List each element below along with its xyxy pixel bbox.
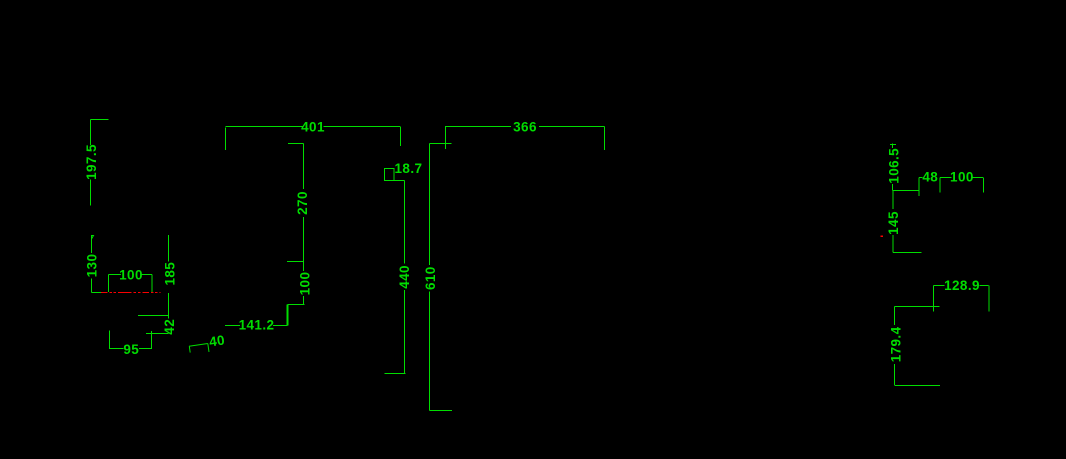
dimension 179.4 line: [894, 307, 896, 386]
svg-text:610: 610: [423, 266, 438, 290]
dimension 106.5 line: [892, 144, 894, 191]
dimension 270 line: [303, 144, 305, 262]
svg-text:440: 440: [397, 265, 412, 289]
dimension 42 bottom tick: [146, 333, 169, 335]
dimension 100 right dim line: [940, 177, 983, 179]
dimension 145 line: [892, 191, 894, 253]
dimension 610 bottom tick: [430, 410, 453, 412]
dimension 95 dim line: [110, 348, 152, 350]
dimension 106.5 bottom corner: [893, 190, 920, 192]
dimension 270/100 mid tick: [287, 261, 304, 263]
rectangle feature 18.7: [385, 169, 395, 181]
dimension 128.9 dim line: [934, 285, 989, 287]
svg-text:128.9: 128.9: [944, 278, 980, 293]
dimension 610 top tick: [430, 143, 452, 145]
dimension 401 dim line: [226, 126, 401, 128]
dimension 130 bottom tick: [92, 292, 102, 294]
dimension 95 ext lines: [110, 331, 152, 350]
svg-text:130: 130: [85, 254, 100, 278]
red centerline: [101, 292, 161, 294]
dimension 48 left ext: [918, 178, 920, 197]
dimension 42 line: [168, 316, 170, 319]
dimension 610 line: [429, 144, 431, 411]
svg-text:18.7: 18.7: [395, 161, 423, 176]
dimension 128.9 ext lines: [934, 286, 990, 312]
svg-text:145: 145: [886, 211, 901, 235]
dimension 100 mid line: [303, 262, 305, 305]
dimension 366 dim line: [445, 126, 605, 128]
dimension 48 dim line: [919, 177, 923, 179]
dimension 48/100 mid ext: [939, 178, 941, 193]
svg-text:95: 95: [123, 342, 139, 357]
svg-text:40: 40: [208, 332, 226, 349]
dimension 179.4 top tick: [895, 306, 940, 308]
dimension 185 bottom tick: [138, 315, 169, 317]
dimension 106.5 top tick: [890, 144, 896, 146]
dimension 100 left ext lines: [109, 275, 153, 293]
svg-text:270: 270: [295, 191, 310, 215]
svg-text:179.4: 179.4: [888, 326, 903, 362]
dimension 179.4 bottom tick: [895, 385, 941, 387]
svg-text:141.2: 141.2: [239, 318, 275, 333]
svg-text:48: 48: [922, 170, 938, 185]
red dot: [881, 236, 884, 238]
svg-text:106.5: 106.5: [886, 148, 901, 184]
dimension 130 line: [91, 235, 93, 293]
svg-text:185: 185: [162, 262, 177, 286]
dimension 440 bottom tick: [385, 373, 406, 375]
dimension 100 left dim line: [109, 274, 153, 276]
dimension 130 arrow: [92, 236, 94, 240]
svg-text:197.5: 197.5: [84, 144, 99, 180]
dimension 440 line: [404, 181, 406, 374]
svg-text:42: 42: [162, 319, 177, 335]
dimension 270 top tick: [288, 143, 304, 145]
dimension 100 mid bottom tick: [288, 304, 305, 306]
dimension 197.5 top tick: [91, 119, 109, 121]
svg-text:401: 401: [301, 119, 325, 134]
dimension 141.2 dim line: [225, 325, 288, 327]
svg-text:100: 100: [950, 170, 974, 185]
svg-text:100: 100: [298, 272, 313, 296]
dimension 366 ext lines: [446, 127, 605, 151]
svg-text:100: 100: [119, 267, 143, 282]
dimension 185 line: [168, 235, 170, 316]
connector under rectangle: [385, 180, 405, 182]
dimension 145 bottom tick: [893, 252, 922, 254]
dimension 197.5 line: [90, 120, 92, 206]
svg-text:366: 366: [513, 120, 537, 135]
dimension 40 rotated group: [188, 332, 226, 354]
ext line to 141.2: [287, 305, 289, 326]
dimension 100 right ext: [983, 178, 985, 193]
dimension 401 ext lines: [226, 127, 401, 151]
